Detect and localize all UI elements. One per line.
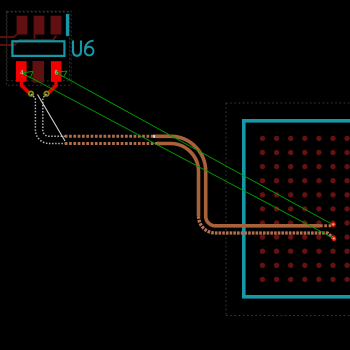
via 2 — [44, 91, 48, 95]
silkscreen body rectangle U6 — [12, 41, 64, 56]
dimmed stub to pad 2 — [34, 34, 36, 41]
track pad4 to via1 — [22, 78, 30, 93]
pad 5 (bottom middle, dimmed) — [33, 61, 45, 83]
board region dot grid — [260, 136, 350, 282]
white transition dash upper — [153, 135, 156, 138]
dragged track outline A (via1, outer) — [31, 94, 65, 144]
salmon dashed track (lower, selected) — [65, 142, 157, 145]
dimmed trace bus to pads 2,3 — [0, 36, 57, 46]
footprint U6 selection box (dashed) — [6, 11, 71, 85]
reference text U6 — [73, 41, 94, 56]
dashed track tail T2 (bottom bend to end) — [199, 216, 334, 238]
dangling track end dot 1 — [331, 222, 336, 227]
board region bounding box (dashed) — [226, 103, 350, 316]
salmon dashed track (upper, selected) — [65, 135, 154, 138]
dimmed trace to pad 1 — [0, 34, 17, 37]
ratsnest arrowhead at pad 6 — [56, 71, 67, 77]
ratsnest line pad4 to end dot 2 — [22, 73, 334, 239]
dashed track end T1 — [320, 224, 332, 227]
via 1 — [29, 91, 33, 95]
pad 6 (highlighted) — [51, 61, 62, 82]
silkscreen pin-1 tick — [66, 15, 69, 34]
white transition dash lower — [157, 142, 160, 145]
pad 4 (highlighted) — [16, 61, 27, 82]
solid track T2 (via1 net, lower) — [157, 144, 199, 217]
board region cyan border — [244, 121, 350, 297]
dangling track end dot 2 — [332, 236, 337, 241]
solid track T1 (via2 net, upper) — [155, 136, 320, 226]
pad 2 (top, dimmed) — [34, 16, 45, 35]
ratsnest line pad6 to end dot 1 — [56, 73, 334, 226]
white guide line — [38, 95, 66, 142]
footprint U6 courtyard box (dashed) — [7, 12, 70, 81]
dragged track outline B (via2, inner) — [43, 94, 65, 136]
track pad6 to via2 — [48, 78, 56, 93]
pad 1 (top, dimmed) — [17, 16, 28, 35]
ratsnest arrowhead at pad 4 — [22, 71, 33, 77]
pad 3 (top, dimmed) — [51, 16, 62, 35]
